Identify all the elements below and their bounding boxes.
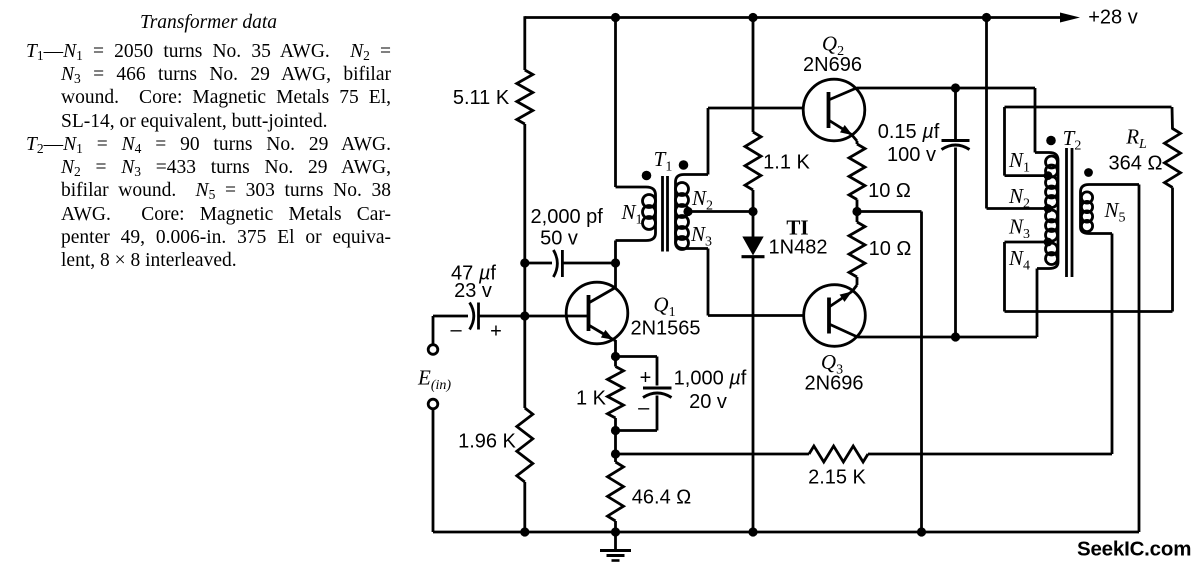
wire RL top stub: [1171, 107, 1174, 130]
svg-text:+: +: [490, 321, 502, 343]
wire upper input terminal stub: [432, 316, 435, 345]
node T1 center tap on winding: [683, 207, 692, 216]
wire Q1 emitter drop: [614, 340, 616, 341]
wire bias node to 2000pf: [525, 262, 552, 265]
svg-text:20 v: 20 v: [689, 391, 727, 413]
svg-text:2.15 K: 2.15 K: [808, 467, 866, 489]
svg-text:–: –: [450, 319, 462, 341]
svg-text:N1: N1: [1008, 148, 1030, 176]
wire +28v rail down to 5.11K: [523, 16, 526, 70]
wire top rail down to T1 primary top: [614, 18, 617, 188]
svg-text:N3: N3: [1008, 215, 1030, 243]
node 1K bottom / cap loop: [611, 426, 620, 435]
resistor R2 1.96K: [517, 408, 533, 482]
wire feedback node to 46.4 ohm: [614, 454, 617, 462]
wire lower input terminal to ground rail: [432, 409, 435, 532]
svg-text:+28 v: +28 v: [1088, 7, 1137, 29]
wire T1 secondary top lead: [676, 175, 709, 183]
capacitor C2 2000pf straight plate: [561, 250, 564, 277]
wire T1 secondary bottom lead: [676, 241, 709, 249]
wire feedback line right: [868, 453, 1112, 456]
svg-text:–: –: [638, 397, 650, 419]
transistor Q1 base bar: [587, 295, 591, 331]
wire T1 N3 bottom to Q3 base riser: [707, 249, 710, 316]
wire T1 secondary top to Q2 base riser: [707, 108, 710, 175]
svg-text:0.15 µf: 0.15 µf: [878, 121, 940, 143]
transistor Q1 collector lead: [589, 288, 616, 304]
wire 46.4 ohm to ground: [614, 521, 617, 532]
transformer T2 secondary N5 stem: [1079, 192, 1082, 227]
svg-text:1.1 K: 1.1 K: [763, 152, 810, 174]
wire 47uf cap to Q1 base: [479, 315, 589, 318]
svg-text:2N696: 2N696: [805, 373, 864, 395]
wire 1.96K to ground rail: [523, 482, 526, 532]
node ground rail / 10 ohm midpoint branch: [917, 527, 926, 536]
svg-text:E(in): E(in): [417, 366, 451, 394]
node collector line / 0.15uf: [951, 83, 960, 92]
transformer T2 primary stem: [1057, 160, 1060, 262]
wire diode cathode to ground rail: [752, 257, 755, 532]
wire T2 tap1 horizontal: [1005, 174, 1049, 177]
diode D1 cathode bar: [742, 255, 765, 258]
diode D1 1N482 triangle: [742, 237, 763, 256]
wire T1 primary bottom to Q1 collector: [614, 241, 617, 289]
node center tap / 1.1K junction: [748, 207, 757, 216]
wire T2 N1 top lead: [1035, 153, 1058, 161]
svg-text:N1: N1: [620, 200, 642, 228]
svg-text:1.96 K: 1.96 K: [458, 431, 516, 453]
node T2 tap N2-N3: [1044, 204, 1053, 213]
resistor R6 1K: [608, 367, 624, 419]
svg-text:364 Ω: 364 Ω: [1109, 153, 1163, 175]
terminal E(in) upper: [428, 345, 438, 355]
node 2000pf tap on bias line: [520, 258, 529, 267]
transformer T2 primary loops: [1046, 156, 1058, 168]
wire top rail to T2 center tap: [985, 18, 988, 209]
wire base node to 1.96K: [523, 316, 526, 408]
wire T2 N1 riser: [1034, 88, 1037, 153]
transformer T1 primary N1 stem: [654, 195, 657, 233]
wire Q3 collector to T2 N4: [858, 336, 1038, 339]
resistor R1 5.11K: [517, 70, 533, 124]
arrowhead +28v: [1060, 13, 1080, 23]
wire 1000uf loop top: [616, 355, 658, 358]
capacitor C1 47uf straight plate: [477, 303, 480, 330]
wire 1.1K to center tap node: [752, 190, 755, 212]
svg-text:T1: T1: [654, 147, 673, 175]
node feedback line tap: [611, 449, 620, 458]
phase dot T1 primary: [642, 171, 652, 181]
node ground rail / diode branch: [748, 527, 757, 536]
transistor Q2 emitter arrow: [840, 125, 853, 135]
wire midpoint tap to ground riser: [857, 210, 922, 213]
resistor R5 10 ohm lower: [849, 222, 865, 277]
transformer T1 secondary stem: [674, 182, 677, 241]
wire Q3 base horizontal: [708, 314, 805, 317]
wire T2 tap3 horizontal: [1005, 241, 1049, 244]
wire N5 top lead: [1081, 185, 1140, 193]
wire 5.11K to base node: [523, 124, 526, 316]
transistor Q2 circle: [803, 79, 865, 141]
wire T2 center tap horizontal: [987, 207, 1054, 210]
wire 10 ohm junction: [856, 200, 859, 223]
svg-text:N5: N5: [1103, 198, 1125, 226]
wire top rail to 1.1K: [752, 18, 755, 133]
transistor Q3 emitter lead: [829, 292, 852, 308]
node 2000pf / collector vertical: [611, 258, 620, 267]
capacitor C4 1000uf curved plate: [643, 393, 672, 398]
wire T2 N4 riser: [1036, 269, 1039, 338]
svg-text:1N482: 1N482: [769, 237, 828, 259]
wire feedback line left: [616, 453, 810, 456]
svg-text:SeekIC.com: SeekIC.com: [1077, 538, 1191, 561]
resistor R4 10 ohm upper: [849, 144, 865, 200]
wire 1000uf loop bottom: [656, 396, 659, 431]
wire tap3 to RL bottom horizontal: [1005, 310, 1173, 313]
phase dot T1 secondary: [679, 160, 689, 170]
wire T2 tap3 drop: [1003, 242, 1006, 312]
transformer T1 secondary N2 N3 loops: [676, 183, 689, 196]
svg-text:Q1: Q1: [653, 293, 675, 321]
resistor R8 2.15K: [809, 446, 868, 462]
node Q3 collector / 0.15uf bottom: [951, 332, 960, 341]
wire T2 N4 bottom lead: [1037, 262, 1058, 269]
svg-text:50 v: 50 v: [540, 228, 578, 250]
wire T2 tap1 riser to loop top: [1003, 107, 1006, 176]
svg-text:1,000 µf: 1,000 µf: [674, 368, 747, 390]
transistor Q1 emitter arrow: [601, 330, 614, 340]
node Q1 emitter / 1K top: [611, 352, 620, 361]
node ground rail / 46.4 ohm: [611, 527, 620, 536]
wire N5 bottom to feedback line: [1111, 234, 1114, 455]
capacitor C3 0.15uf straight plate: [942, 139, 970, 142]
svg-text:2,000 pf: 2,000 pf: [531, 206, 604, 228]
capacitor C1 47uf curved plate: [470, 303, 474, 330]
wire T1 primary top lead: [616, 187, 656, 195]
transistor Q3 collector lead: [829, 324, 858, 337]
svg-text:RL: RL: [1125, 125, 1147, 153]
node junction top rail / T2 center-tap branch: [982, 13, 991, 22]
svg-text:N4: N4: [1008, 246, 1030, 274]
wire 1K bottom to feedback node: [614, 431, 617, 455]
resistor RL 364 ohm: [1165, 129, 1181, 188]
node junction top rail / 1.1K branch: [748, 13, 757, 22]
wire 0.15uf bottom lead: [954, 148, 957, 338]
transformer T1 core: [661, 176, 664, 252]
wire input line left of 47uf cap: [433, 315, 468, 318]
transformer T2 secondary N5 loops: [1081, 192, 1092, 203]
svg-text:10 Ω: 10 Ω: [869, 238, 912, 260]
svg-text:N2: N2: [1008, 184, 1030, 212]
transistor Q3 base bar: [827, 298, 831, 334]
svg-text:1 K: 1 K: [576, 388, 607, 410]
node 10 ohm midpoint: [852, 207, 861, 216]
svg-text:23 v: 23 v: [454, 280, 492, 302]
wire N5 top to ground rail: [1138, 185, 1141, 533]
wire loop top horizontal to RL: [1005, 106, 1172, 109]
node T2 tap N3-N4: [1044, 238, 1053, 247]
phase dot T2 primary: [1046, 136, 1056, 146]
transformer T1 primary N1 loops: [643, 195, 656, 208]
wire Q2 emitter to 10 ohm: [852, 135, 858, 142]
node base line tap: [520, 311, 529, 320]
svg-text:100 v: 100 v: [887, 144, 936, 166]
svg-text:10 Ω: 10 Ω: [868, 180, 911, 202]
terminal E(in) lower: [428, 399, 438, 409]
svg-text:46.4 Ω: 46.4 Ω: [632, 487, 691, 509]
wire Q2 collector to T2 N1: [857, 87, 1036, 90]
node junction top rail / T1 primary feed: [611, 13, 620, 22]
svg-text:+: +: [640, 367, 652, 389]
wire T1 primary bottom lead: [616, 233, 656, 241]
wire T1 center tap to diode node: [684, 210, 753, 213]
wire 1K top stub: [614, 357, 617, 367]
wire N5 bottom lead: [1081, 227, 1113, 234]
wire Q2 base horizontal: [708, 107, 804, 110]
svg-text:2N696: 2N696: [803, 54, 862, 76]
wire bottom ground rail: [433, 531, 1139, 534]
transistor Q1 emitter lead: [589, 325, 614, 340]
resistor R3 1.1K: [745, 132, 761, 190]
transistor Q2 emitter lead: [829, 120, 852, 135]
svg-text:N2: N2: [691, 186, 713, 214]
transistor Q2 base bar: [827, 92, 831, 128]
wire center tap node to diode: [752, 212, 755, 238]
wire 0.15uf top lead: [954, 88, 957, 139]
wire RL bottom riser: [1171, 188, 1174, 312]
wire 2000pf to collector line: [562, 262, 615, 265]
ground symbol: [614, 532, 617, 550]
transformer T2 core: [1065, 148, 1068, 277]
node ground rail / bias divider: [520, 527, 529, 536]
node T2 tap N1-N2: [1044, 171, 1053, 180]
resistor R7 46.4 ohm: [608, 462, 624, 521]
svg-text:2N1565: 2N1565: [630, 318, 700, 340]
wire +28v supply rail: [525, 16, 1066, 19]
transistor Q3 emitter arrow: [840, 292, 852, 302]
svg-text:5.11 K: 5.11 K: [453, 87, 510, 109]
capacitor C4 1000uf straight plate: [643, 387, 672, 390]
svg-text:N3: N3: [690, 222, 712, 250]
wire 1K bottom stub: [614, 418, 617, 431]
transformer data text block: [26, 11, 391, 34]
capacitor C3 0.15uf curved plate: [942, 145, 970, 150]
transistor Q2 collector lead: [829, 88, 857, 100]
transistor Q3 circle: [804, 285, 866, 347]
transistor Q1 circle: [566, 282, 628, 344]
capacitor C2 2000pf curved plate: [553, 250, 557, 277]
phase dot T2 secondary: [1084, 168, 1093, 177]
wire 10 ohm to Q3 emitter: [856, 277, 859, 285]
